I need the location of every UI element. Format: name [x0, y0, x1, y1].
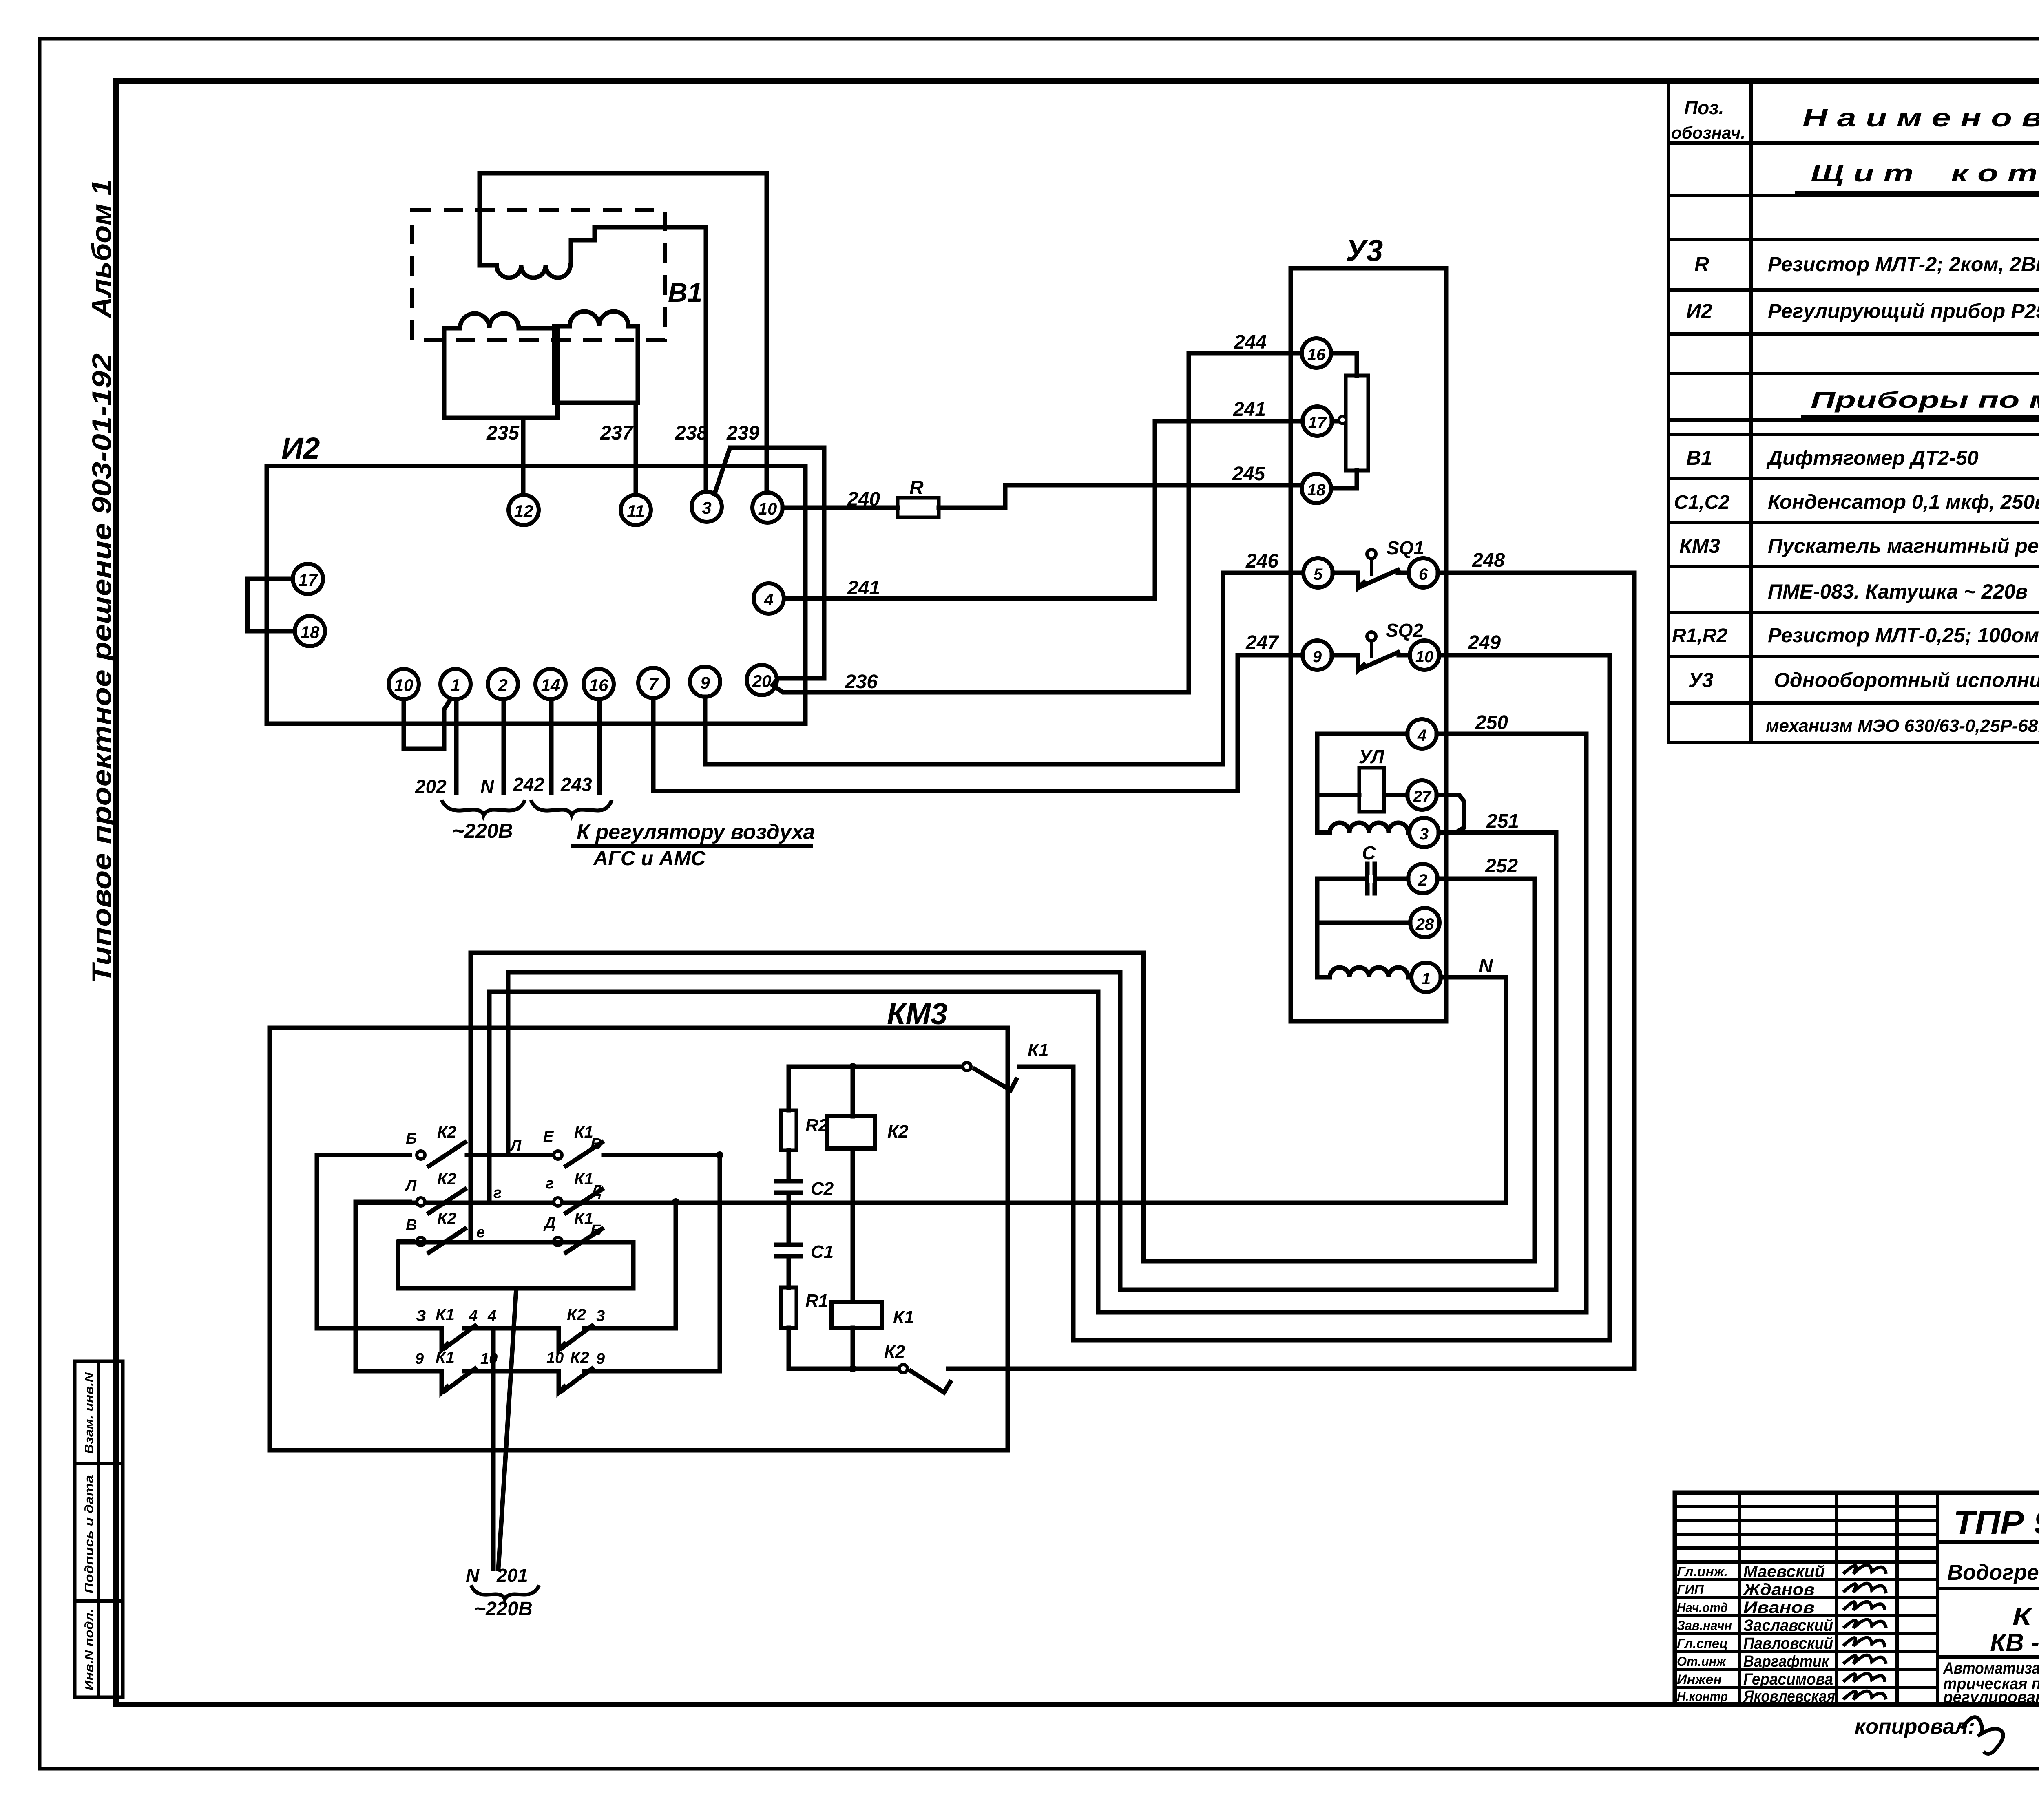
svg-text:10: 10 [758, 499, 777, 518]
svg-text:Герасимова: Герасимова [1743, 1670, 1833, 1688]
У3 internal resistor [1346, 375, 1368, 470]
title block signatures squiggles [1843, 1565, 1886, 1699]
svg-text:Яковлевская: Яковлевская [1743, 1687, 1835, 1705]
svg-text:247: 247 [1245, 632, 1279, 654]
switch SQ1 [1333, 550, 1409, 588]
svg-text:АГС и АМС: АГС и АМС [593, 847, 706, 870]
svg-text:20: 20 [752, 671, 772, 691]
row2 contact К2 [417, 1189, 465, 1213]
У3 terminal 10 [1410, 641, 1439, 670]
svg-text:R1,R2: R1,R2 [1672, 625, 1727, 647]
svg-text:Маевский: Маевский [1743, 1563, 1825, 1581]
switch SQ2 [1332, 632, 1410, 670]
svg-text:Водогрейные котлы типа КВ-ГМ: Водогрейные котлы типа КВ-ГМ [1947, 1560, 2039, 1585]
svg-text:248: 248 [1472, 550, 1505, 571]
svg-text:3: 3 [1420, 825, 1429, 843]
svg-text:4: 4 [469, 1308, 478, 1325]
svg-text:е: е [476, 1224, 485, 1241]
svg-text:В1: В1 [668, 277, 702, 307]
svg-text:241: 241 [1233, 399, 1266, 420]
svg-text:Варгафтик: Варгафтик [1743, 1652, 1830, 1670]
svg-text:Б: Б [590, 1222, 602, 1239]
svg-text:18: 18 [1307, 481, 1326, 499]
У3 terminal 6 [1409, 558, 1438, 588]
svg-text:В: В [590, 1135, 602, 1153]
wire N down from row4 junction [491, 1328, 496, 1569]
svg-text:Нач.отд: Нач.отд [1677, 1600, 1728, 1615]
svg-text:Однооборотный исполнительный: Однооборотный исполнительный [1774, 669, 2039, 691]
capacitor C2 [776, 1181, 801, 1193]
svg-text:Гл.спец: Гл.спец [1677, 1636, 1728, 1651]
svg-text:~220В: ~220В [474, 1598, 533, 1620]
row4 blade diagonal [445, 1326, 475, 1348]
svg-text:Резистор МЛТ-0,25; 100ом, 0: Резистор МЛТ-0,25; 100ом, 0,25 Вт [1768, 624, 2039, 647]
svg-text:R: R [1694, 253, 1709, 276]
svg-text:К2: К2 [437, 1210, 456, 1228]
svg-text:Н а и м е н о в а н и е: Н а и м е н о в а н и е [1802, 104, 2039, 132]
svg-text:КВ - ГМ - 50: КВ - ГМ - 50 [1990, 1629, 2039, 1657]
КМ3 left jumper row1-row4 [317, 1155, 414, 1328]
wire 240 from И2 terminal 10 to resistor R [783, 506, 898, 510]
svg-text:27: 27 [1413, 788, 1432, 806]
svg-text:4: 4 [487, 1308, 496, 1325]
title block signature names [1743, 1563, 1835, 1705]
И2 terminal 17 [293, 564, 323, 594]
row4 line [414, 1326, 676, 1331]
svg-text:Жданов: Жданов [1743, 1581, 1815, 1599]
svg-text:Е: Е [543, 1128, 554, 1145]
svg-text:Зав.начн: Зав.начн [1677, 1618, 1732, 1633]
svg-text:К2: К2 [437, 1170, 456, 1188]
junction dot row2 riser [672, 1198, 679, 1206]
svg-text:В1: В1 [1686, 446, 1712, 469]
resistor R2 [781, 1110, 796, 1150]
svg-text:237: 237 [600, 422, 634, 444]
wire 236 from terminal 20 to 244 riser [774, 353, 1302, 692]
И2 terminal 2 [488, 669, 518, 699]
capacitor C plates [1367, 864, 1375, 893]
И2 terminal 14 [535, 669, 566, 699]
underline К регулятору воздуха [573, 844, 812, 848]
B1 top coil [480, 227, 595, 278]
svg-text:240: 240 [847, 488, 880, 510]
resistor R1 [781, 1288, 796, 1328]
svg-text:16: 16 [589, 676, 608, 695]
svg-text:235: 235 [486, 422, 520, 444]
У3 internal resistor wire from 16 [1331, 353, 1357, 375]
svg-text:Инжен: Инжен [1677, 1672, 1722, 1687]
У3 terminal 3 [1409, 818, 1439, 847]
svg-text:обознач.: обознач. [1671, 123, 1745, 142]
wire 249 loop [1073, 655, 1610, 1340]
svg-text:Иванов: Иванов [1743, 1599, 1815, 1617]
И2 terminal 3 [692, 492, 722, 522]
У3 coil upper [1317, 823, 1408, 833]
svg-text:SQ2: SQ2 [1386, 620, 1423, 641]
У3 coil lower [1317, 967, 1408, 977]
svg-text:УЛ: УЛ [1359, 746, 1385, 767]
svg-text:R2: R2 [805, 1115, 829, 1135]
svg-text:17: 17 [299, 570, 318, 590]
У3 terminal 17 [1303, 406, 1332, 436]
svg-text:Регулирующий прибор Р25.1.2: Регулирующий прибор Р25.1.2 [1768, 300, 2039, 322]
И2 terminal 7 [638, 668, 668, 698]
R2 branch vertical [787, 1067, 791, 1369]
КМ3 left jumper row2-row5 [356, 1202, 412, 1371]
svg-text:N: N [480, 776, 494, 797]
brace under N 201 [471, 1585, 539, 1599]
title block left table rows [1675, 1506, 1938, 1687]
row2 right riser to row4 [674, 1202, 678, 1328]
margin strip divider vertical [97, 1361, 100, 1697]
svg-text:Щ и т к о т л а: Щ и т к о т л а [1811, 160, 2039, 187]
svg-text:К регулятору воздуха: К регулятору воздуха [577, 820, 815, 844]
B1 outer winding loop wire [480, 173, 767, 493]
parts table grid [1668, 83, 2039, 742]
svg-text:К2: К2 [887, 1122, 909, 1142]
svg-text:К1: К1 [436, 1306, 455, 1324]
row4 contact К2 blade [559, 1328, 564, 1350]
row5 contact К1 blade [442, 1371, 447, 1392]
title block outline [1675, 1493, 2039, 1704]
B1 dashed enclosure [412, 210, 665, 340]
resistor R [898, 498, 939, 517]
svg-text:Н.контр: Н.контр [1677, 1689, 1728, 1704]
svg-text:R: R [909, 477, 924, 499]
svg-text:14: 14 [541, 676, 560, 695]
wire 242 down from terminal 14 [549, 700, 554, 793]
svg-text:5: 5 [1314, 565, 1323, 583]
row5 line [412, 1369, 720, 1374]
svg-text:Поз.: Поз. [1684, 97, 1724, 118]
svg-text:2: 2 [1418, 871, 1427, 889]
У3 terminal 18 [1302, 474, 1331, 503]
B1 left lower coil box [444, 314, 557, 418]
svg-text:1: 1 [451, 676, 460, 695]
svg-text:Резистор МЛТ-2; 2ком, 2Вт: Резистор МЛТ-2; 2ком, 2Вт [1768, 253, 2039, 276]
svg-text:244: 244 [1234, 331, 1267, 353]
svg-text:Д: Д [589, 1182, 602, 1199]
B1 inner winding wire [595, 227, 706, 492]
svg-text:В: В [406, 1217, 417, 1234]
И2 jumper 10-1 [404, 699, 451, 749]
КМ3 contact block rectangle [398, 1242, 633, 1288]
wire N down from terminal 2 [502, 700, 506, 793]
svg-text:Типовое проектное решение 903-: Типовое проектное решение 903-01-192 [86, 353, 117, 983]
svg-text:238: 238 [675, 422, 708, 444]
wire 202 down from terminal 1 [454, 700, 459, 793]
brace under 202 N [442, 800, 525, 815]
svg-text:~220В: ~220В [452, 819, 513, 842]
svg-text:Л: Л [509, 1137, 522, 1154]
svg-text:10: 10 [546, 1350, 564, 1367]
svg-text:К2: К2 [884, 1342, 905, 1362]
svg-text:Подпись и дата: Подпись и дата [83, 1475, 96, 1593]
svg-text:ГИП: ГИП [1677, 1582, 1704, 1597]
wire from R to 245 run [939, 485, 1302, 508]
svg-text:Пускатель магнитный реверсив: Пускатель магнитный реверсивный [1768, 535, 2039, 557]
И2 terminal 12 [509, 495, 539, 525]
svg-text:С2: С2 [811, 1179, 834, 1199]
svg-text:К2: К2 [437, 1123, 456, 1141]
К2 coil [827, 1116, 875, 1149]
wire 246 from И2 terminal 9 [705, 573, 1304, 764]
И2 terminal 18 [295, 616, 325, 646]
svg-text:С1,С2: С1,С2 [1674, 492, 1729, 513]
svg-text:245: 245 [1232, 463, 1265, 485]
wire 239 from terminal 3 to terminal 20 [714, 448, 824, 685]
row4 contact К1 blade [442, 1328, 447, 1350]
svg-text:9: 9 [596, 1350, 605, 1367]
И2 terminal 20 [747, 665, 777, 695]
wire through УЛ to 27 [1317, 793, 1407, 797]
wire 243 down from terminal 16 [597, 700, 602, 793]
И2 terminal 4 [754, 583, 784, 614]
svg-text:7: 7 [648, 674, 659, 694]
svg-text:1: 1 [1422, 970, 1431, 988]
svg-text:К2: К2 [570, 1349, 589, 1367]
svg-text:Приборы по месту: Приборы по месту [1811, 387, 2039, 413]
row5 blade diagonal 2 [562, 1369, 592, 1391]
svg-text:R1: R1 [805, 1291, 828, 1311]
capacitor C1 [776, 1245, 801, 1256]
svg-text:ТПР 903-01-192: ТПР 903-01-192 [1953, 1504, 2039, 1541]
svg-text:9: 9 [700, 673, 710, 692]
svg-text:243: 243 [560, 774, 592, 795]
svg-text:Павловский: Павловский [1743, 1634, 1833, 1652]
svg-text:К о т е л: К о т е л [2012, 1603, 2039, 1630]
svg-text:Взам. инв.N: Взам. инв.N [83, 1372, 96, 1454]
svg-text:236: 236 [845, 671, 878, 693]
К1 contact top [963, 1062, 1016, 1090]
title block right horizontals [1938, 1542, 2039, 1704]
svg-text:10: 10 [394, 676, 414, 695]
К1 coil [832, 1302, 882, 1328]
УЛ box [1359, 768, 1384, 812]
И2 terminal 11 [621, 495, 651, 525]
И2 terminal 1 [440, 669, 471, 699]
svg-text:16: 16 [1307, 346, 1326, 364]
svg-text:2: 2 [498, 676, 507, 695]
margin strip box [75, 1361, 123, 1697]
wire 250 loop [489, 734, 1586, 1312]
row3 contact К1 [554, 1229, 602, 1252]
margin strip divider 2 [75, 1599, 123, 1603]
К1 contact output line [789, 1065, 1073, 1069]
У3 wiper contact dot [1339, 416, 1346, 424]
svg-text:250: 250 [1475, 712, 1508, 733]
svg-text:Б: Б [406, 1130, 417, 1147]
capacitor C gap blank [1369, 875, 1373, 883]
К2 contact bottom [899, 1365, 1634, 1392]
row5 contact К2 blade [559, 1371, 564, 1392]
svg-text:От.инж: От.инж [1677, 1654, 1726, 1669]
У3 left bracket upper [1317, 734, 1407, 833]
wire 248 loop [1438, 573, 1634, 1369]
svg-text:г: г [546, 1175, 554, 1192]
svg-text:ПМЕ-083. Катушка ~ 220в: ПМЕ-083. Катушка ~ 220в [1768, 580, 2028, 603]
row1 right riser to row5 [718, 1155, 722, 1371]
У3 terminal 16 [1302, 338, 1331, 368]
wire 241 from И2 terminal 4 [784, 421, 1303, 599]
title block signature roles [1677, 1564, 1732, 1704]
копировал signature [1962, 1717, 2003, 1754]
У3 internal resistor wire to 18 [1331, 470, 1357, 488]
row1 contact К1 [554, 1142, 720, 1166]
svg-text:регулирования разрежения: регулирования разрежения [1943, 1688, 2039, 1706]
wire N long horizontal [356, 1201, 1506, 1205]
contactor КМ3 box [270, 1028, 1008, 1450]
У3 terminal 9 [1303, 641, 1332, 670]
svg-text:У3: У3 [1688, 669, 1714, 691]
actuator У3 box [1291, 268, 1446, 1021]
svg-text:И2: И2 [281, 431, 320, 465]
У3 terminal 1 [1411, 963, 1441, 992]
svg-text:9: 9 [415, 1350, 424, 1367]
svg-text:К1: К1 [1028, 1040, 1049, 1060]
B1 right lower coil box [554, 311, 638, 403]
И2 terminal 9 [690, 667, 720, 697]
svg-text:4: 4 [763, 590, 773, 609]
svg-text:З: З [416, 1308, 426, 1325]
row3 contact К2 [399, 1229, 465, 1252]
svg-text:Дифтягомер ДТ2-50: Дифтягомер ДТ2-50 [1766, 446, 1979, 469]
svg-text:Инв.N подл.: Инв.N подл. [83, 1609, 96, 1690]
junction dot coil branch bottom [849, 1365, 856, 1372]
svg-text:11: 11 [627, 501, 645, 521]
У3 resistor wiper from 17 [1332, 419, 1339, 424]
svg-text:246: 246 [1245, 550, 1278, 572]
И2 terminal 16 [584, 669, 614, 699]
svg-text:С: С [1362, 842, 1376, 864]
И2 terminal 10 bottom [389, 669, 419, 699]
svg-text:201: 201 [496, 1565, 528, 1586]
svg-text:18: 18 [301, 623, 320, 642]
svg-text:Гл.инж.: Гл.инж. [1677, 1564, 1728, 1579]
svg-text:241: 241 [847, 577, 880, 599]
hook wire 27 to 251 [1437, 795, 1464, 833]
У3 left bracket lower [1317, 879, 1408, 977]
svg-text:И2: И2 [1686, 300, 1712, 322]
У3 terminal 4 [1407, 719, 1437, 749]
svg-text:SQ1: SQ1 [1387, 537, 1424, 559]
svg-text:4: 4 [1417, 727, 1426, 744]
B1 right lower coil tap wire 237 [634, 403, 638, 495]
row4 blade diagonal 2 [562, 1326, 592, 1348]
У3 terminal 27 [1407, 780, 1437, 810]
wire N loop [1441, 977, 1506, 1203]
svg-text:242: 242 [513, 774, 544, 795]
margin strip divider 1 [75, 1462, 123, 1465]
junction dot coil branch top [849, 1063, 856, 1070]
wire 247 from И2 terminal 7 [653, 655, 1303, 791]
И2 jumper 17-18 [248, 579, 295, 631]
coil branch vertical [851, 1067, 855, 1369]
svg-text:N: N [1479, 955, 1493, 977]
svg-text:239: 239 [726, 422, 759, 444]
svg-text:N: N [466, 1565, 480, 1586]
junction dot row1 riser [716, 1151, 723, 1159]
wire 251 loop [508, 833, 1556, 1290]
svg-text:10: 10 [1415, 648, 1434, 666]
svg-text:Альбом 1: Альбом 1 [86, 179, 117, 319]
svg-text:КМ3: КМ3 [887, 997, 947, 1031]
svg-text:КМ3: КМ3 [1679, 535, 1720, 557]
svg-text:копировал:: копировал: [1855, 1715, 1975, 1738]
svg-text:К1: К1 [436, 1349, 455, 1367]
wire to 28 [1317, 921, 1410, 925]
svg-text:12: 12 [514, 501, 533, 521]
row5 blade diagonal [445, 1369, 475, 1391]
svg-text:Конденсатор 0,1 мкф, 250в: Конденсатор 0,1 мкф, 250в [1768, 490, 2039, 513]
У3 terminal 5 [1303, 558, 1333, 588]
svg-text:Заславский: Заславский [1743, 1617, 1833, 1634]
У3 terminal 28 [1410, 908, 1440, 937]
svg-text:К1: К1 [893, 1307, 914, 1327]
wire 252 loop [471, 879, 1535, 1261]
svg-text:С1: С1 [811, 1242, 834, 1262]
svg-text:6: 6 [1419, 565, 1428, 583]
row2 contact К1 [554, 1189, 602, 1213]
B1 left lower coil tap wire 235 [521, 418, 526, 495]
У3 terminal 2 [1408, 864, 1437, 893]
svg-text:3: 3 [596, 1308, 605, 1325]
wire 201 diagonal from block [498, 1288, 516, 1569]
svg-text:249: 249 [1468, 632, 1501, 654]
svg-text:251: 251 [1486, 811, 1519, 832]
svg-text:252: 252 [1485, 855, 1518, 877]
branch bottom junction [789, 1367, 899, 1371]
svg-text:28: 28 [1415, 915, 1434, 933]
svg-text:3: 3 [702, 498, 711, 517]
brace under 242 243 [531, 800, 612, 815]
svg-text:К2: К2 [567, 1306, 586, 1324]
svg-text:г: г [493, 1184, 502, 1202]
svg-text:Д: Д [543, 1215, 555, 1232]
svg-text:17: 17 [1308, 414, 1327, 432]
svg-text:механизм МЭО 630/63-0,25Р-68.К: механизм МЭО 630/63-0,25Р-68.Катушка~220… [1766, 716, 2039, 736]
title block left table verticals [1739, 1493, 1938, 1704]
row1 contact К2 [417, 1142, 553, 1166]
regulator И2 box [267, 466, 805, 724]
И2 terminal 10 top [752, 493, 783, 523]
svg-text:202: 202 [415, 776, 447, 797]
svg-text:9: 9 [1313, 648, 1322, 666]
svg-text:Л: Л [405, 1177, 417, 1194]
svg-text:У3: У3 [1346, 234, 1383, 267]
